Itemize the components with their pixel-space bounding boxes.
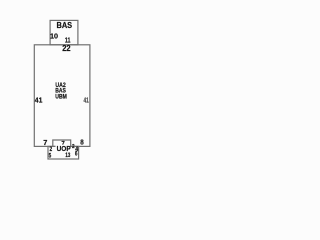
svg-text:5: 5 <box>49 153 52 160</box>
svg-text:10: 10 <box>50 34 58 41</box>
svg-text:8: 8 <box>80 138 84 147</box>
svg-text:UBM: UBM <box>55 94 67 101</box>
svg-text:7: 7 <box>43 138 47 147</box>
svg-text:UOP: UOP <box>57 144 71 153</box>
svg-text:22: 22 <box>62 44 71 53</box>
svg-text:41: 41 <box>84 95 89 104</box>
svg-text:13: 13 <box>65 153 70 159</box>
svg-text:BAS: BAS <box>57 21 73 30</box>
svg-text:41: 41 <box>35 96 43 105</box>
